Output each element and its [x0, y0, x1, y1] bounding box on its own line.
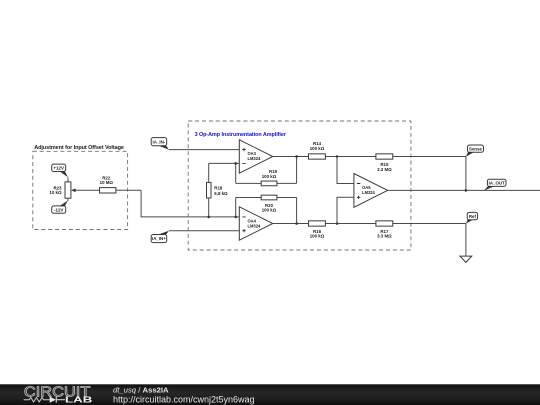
wire: OA3 output line to R15 right end — [273, 156, 466, 158]
resistor R15 — [376, 154, 393, 172]
svg-text:Sense: Sense — [469, 146, 482, 151]
svg-text:10 MΩ: 10 MΩ — [100, 180, 114, 185]
wire: OA5 output to right edge — [388, 189, 540, 191]
wire: node A down to OA5 - input — [337, 157, 354, 184]
node flag Ref — [466, 212, 478, 223]
ground — [460, 256, 472, 262]
svg-text:LM324: LM324 — [248, 156, 261, 161]
svg-text:-12V: -12V — [54, 207, 63, 212]
junction dot OA4 - input at R20 — [234, 216, 237, 219]
resistor R17 — [376, 221, 393, 239]
svg-text:100 kΩ: 100 kΩ — [310, 146, 325, 151]
svg-text:http://circuitlab.com/cwnj2t5y: http://circuitlab.com/cwnj2t5yn6wag — [113, 395, 255, 405]
junction dot node A — [336, 155, 339, 158]
wire: Ref line down to ground — [465, 224, 467, 257]
resistor R22 — [100, 176, 142, 193]
svg-text:R18: R18 — [214, 185, 223, 190]
svg-text:3.3 MΩ: 3.3 MΩ — [377, 167, 392, 172]
svg-text:100 kΩ: 100 kΩ — [310, 234, 325, 239]
dashed box: 3 Op-Amp Instrumentation Amplifier — [188, 121, 411, 250]
wire: IA_IN+ to OA4 + input — [169, 230, 239, 232]
wire: R22 down to OA4 inverting input line — [141, 190, 239, 217]
wire: R18 top to OA3 - input — [209, 162, 240, 164]
op-amp OA5 — [354, 174, 388, 208]
resistor R20 feedback — [236, 195, 297, 223]
svg-text:10 kΩ: 10 kΩ — [49, 190, 62, 195]
node flag -12V — [52, 200, 68, 213]
resistor R18 vertical — [207, 163, 229, 217]
resistor R16 — [309, 221, 326, 239]
junction dot node B — [336, 222, 339, 225]
dashed box: Adjustment for Input Offset Voltage — [33, 151, 128, 229]
svg-text:IA_IN+: IA_IN+ — [152, 236, 166, 241]
svg-text:Ref: Ref — [469, 214, 477, 219]
svg-text:3 Op-Amp Instrumentation Ampli: 3 Op-Amp Instrumentation Amplifier — [195, 132, 287, 138]
node flag Sense — [466, 145, 484, 157]
wire: OA4 output line to R17 right end — [273, 223, 466, 225]
svg-text:6.8 kΩ: 6.8 kΩ — [214, 191, 228, 196]
wire: node B up to OA5 + input — [337, 197, 354, 223]
svg-text:LM324: LM324 — [248, 224, 261, 229]
svg-text:LAB: LAB — [65, 396, 93, 405]
logo diode — [50, 397, 56, 403]
potentiometer R23 — [49, 177, 99, 201]
junction dot output feedback — [465, 189, 468, 192]
logo resistor-diode squiggle — [24, 398, 50, 402]
node flag IA_IN- — [151, 138, 169, 150]
svg-text:+12V: +12V — [54, 166, 64, 171]
op-amp OA4 — [239, 207, 272, 240]
node flag IA_OUT — [484, 179, 506, 190]
node flag +12V — [52, 164, 68, 177]
svg-text:100 kΩ: 100 kΩ — [262, 174, 277, 179]
svg-text:LM324: LM324 — [362, 190, 375, 195]
junction dot OA4 - input at R18 — [207, 216, 210, 219]
svg-text:3.3 MΩ: 3.3 MΩ — [377, 234, 392, 239]
footer bar — [0, 384, 540, 405]
junction dot OA4 output — [295, 222, 298, 225]
resistor R14 — [309, 141, 326, 159]
op-amp OA3 — [239, 140, 272, 173]
wire: Sense vertical to output — [465, 157, 467, 191]
svg-text:IA_IN-: IA_IN- — [153, 139, 166, 144]
junction dot OA3 output — [295, 155, 298, 158]
node flag IA_IN+ — [151, 231, 169, 243]
svg-text:100 kΩ: 100 kΩ — [262, 208, 277, 213]
svg-text:IA_OUT: IA_OUT — [489, 181, 505, 186]
junction dot OA3 - input — [234, 162, 237, 165]
resistor R19 feedback — [236, 157, 297, 186]
svg-text:Adjustment for Input Offset Vo: Adjustment for Input Offset Voltage — [34, 145, 124, 151]
wire: IA_IN- to OA3 + input — [169, 149, 239, 151]
svg-text:dt_usq / Ass2IA: dt_usq / Ass2IA — [113, 385, 169, 394]
